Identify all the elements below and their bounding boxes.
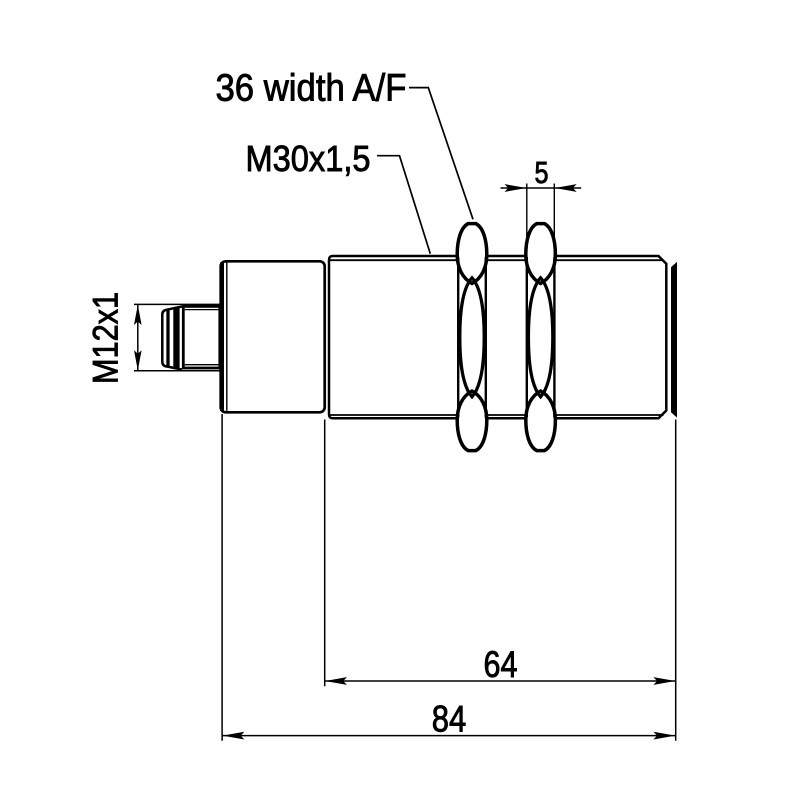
5 dimension extension line right (553, 184, 555, 262)
coupling inner bottom line (185, 364, 220, 366)
leader line for M30x1,5 (377, 156, 430, 254)
rear cap cylinder (221, 261, 325, 412)
sensing face thick bar (671, 262, 677, 418)
nut 2 middle facet lens (528, 278, 552, 397)
thread root line top (330, 259, 664, 261)
M12 dimension arrow down (134, 350, 142, 370)
5 dimension extension line left (526, 184, 528, 262)
svg-text:64: 64 (484, 644, 518, 685)
connector thread line A (166, 310, 169, 367)
connector thread band B (173, 308, 179, 368)
nut 2 left side line (526, 257, 528, 417)
connector coupling body (183, 306, 220, 368)
nut 1 white column (458, 251, 486, 421)
extension line left (cap) (221, 414, 223, 741)
svg-text:84: 84 (432, 698, 467, 739)
M12 dimension arrow up (134, 305, 142, 325)
nut 2 right side line (553, 257, 555, 417)
nut 2 top chamfer lens (526, 224, 556, 284)
nut 1 right side line (485, 257, 487, 417)
84 arrow left (223, 732, 245, 740)
5 dimension arrow left (505, 184, 527, 192)
5 dimension line (501, 187, 582, 189)
thread root line bottom (330, 414, 664, 416)
nut 1 bottom chamfer lens (457, 391, 487, 451)
nut 2 white column (527, 251, 555, 421)
nut 1 top chamfer lens (457, 224, 487, 284)
nut 1 lens fills (457, 224, 487, 284)
M12 dimension line (137, 304, 139, 370)
extension line right (face) (675, 420, 677, 741)
84 arrow right (653, 732, 675, 740)
svg-text:M30x1,5: M30x1,5 (246, 138, 371, 179)
5 dimension arrow right (555, 184, 577, 192)
leader line for 36 width A/F (409, 88, 473, 220)
connector thread stub outline (162, 307, 182, 370)
64 arrow left (325, 677, 347, 685)
extension line middle (body start) (324, 420, 326, 687)
64 arrow right (653, 677, 675, 685)
svg-text:5: 5 (535, 155, 549, 190)
nut 1 middle facet lens (460, 278, 484, 397)
coupling inner top line (185, 309, 220, 311)
rear cap inner left line (226, 262, 228, 411)
threaded body outline (329, 256, 666, 418)
nut 1 left side line (457, 257, 459, 417)
rear cap left face thick line (220, 263, 224, 411)
M12 dimension extension ticks (134, 303, 221, 305)
84 dimension line (222, 735, 676, 737)
nut 2 lens fills (526, 224, 556, 284)
nut 2 bottom chamfer lens (526, 391, 556, 451)
svg-text:M12x1: M12x1 (87, 292, 126, 384)
svg-text:36 width A/F: 36 width A/F (216, 67, 407, 109)
64 dimension line (325, 680, 676, 682)
